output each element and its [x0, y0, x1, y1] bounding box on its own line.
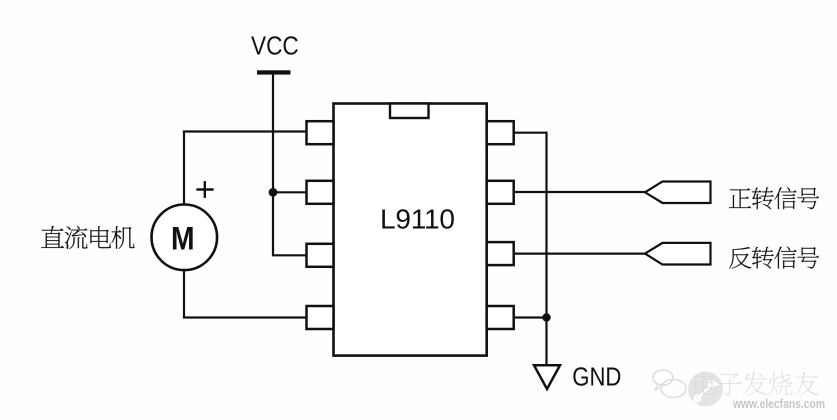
pin 3: [307, 244, 334, 267]
svg-text:M: M: [171, 221, 195, 257]
pin 6: [487, 242, 514, 265]
pin 7: [487, 181, 514, 204]
svg-text:VCC: VCC: [251, 32, 299, 61]
watermark text 电子发烧友: [695, 372, 819, 396]
wire pin 7 to tag 1: [514, 191, 646, 193]
signal tag 2 flag: [645, 243, 711, 265]
net label 反转信号: [729, 246, 819, 268]
motor label 直流电机: [41, 226, 134, 249]
wire VCC to pin 3: [272, 254, 307, 256]
wire pin 8 to right vertical: [514, 132, 547, 134]
svg-text:L9110: L9110: [380, 204, 455, 235]
junction VCC node: [269, 188, 278, 197]
VCC bar symbol: [257, 70, 291, 74]
signal tag 1 flag: [645, 182, 711, 204]
wire pin 6 to tag 2: [514, 253, 646, 255]
watermark logo circle: [688, 372, 723, 407]
wire pin 5 to right vertical: [514, 316, 547, 318]
pin 2: [307, 181, 334, 204]
pin 5: [487, 306, 514, 329]
ground symbol: [534, 365, 560, 389]
IC U1 body: [334, 104, 487, 356]
wire motor bottom vertical: [183, 270, 185, 318]
wire motor bottom to pin 4: [183, 316, 307, 318]
wire VCC to pin 2: [273, 191, 307, 193]
motor polarity plus: [196, 181, 213, 198]
svg-text:GND: GND: [572, 363, 621, 392]
net label 正转信号: [729, 187, 819, 209]
watermark logo bubbles: [653, 370, 686, 398]
wire right vertical: [545, 132, 547, 366]
motor M1 circle: [152, 205, 218, 271]
wire motor top to pin 1: [183, 130, 307, 132]
pin 8: [487, 121, 514, 144]
wire VCC vertical: [272, 75, 274, 256]
pin 4: [307, 306, 334, 329]
wire motor top vertical: [183, 132, 185, 206]
svg-text:www.elecfans.com: www.elecfans.com: [732, 396, 825, 411]
pin 1: [307, 121, 334, 144]
junction GND node: [542, 313, 550, 321]
IC U1 notch: [390, 104, 429, 119]
